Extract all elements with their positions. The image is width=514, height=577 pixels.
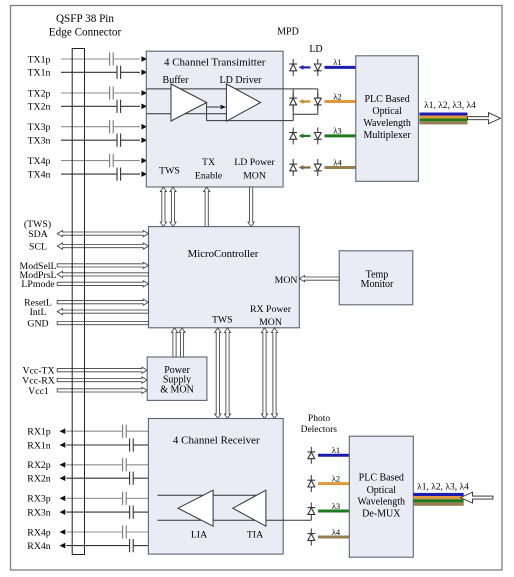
capacitor TX4n: [116, 168, 118, 181]
arrow LD3 to MPD3: [303, 135, 311, 137]
svg-text:Vcc1: Vcc1: [28, 386, 49, 397]
laser diode LD4: [317, 159, 319, 176]
arrow into transmitter TX1p: [141, 56, 147, 62]
wire RX1p: [66, 430, 122, 432]
capacitor TX4p: [109, 154, 111, 167]
svg-text:QSFP 38 Pin: QSFP 38 Pin: [56, 13, 114, 25]
svg-text:LD: LD: [309, 44, 322, 55]
laser diode LD2: [317, 93, 319, 110]
laser diode LD1: [317, 59, 319, 76]
svg-text:Wavelength: Wavelength: [358, 497, 406, 508]
arrow RX optical input: [461, 492, 493, 503]
wire TX1n: [61, 71, 117, 73]
wire lambda2 TX: [325, 100, 356, 103]
svg-text:MON: MON: [275, 275, 298, 286]
capacitor TX2n: [116, 100, 118, 113]
svg-text:RX1p: RX1p: [27, 427, 51, 438]
signal SCL: [57, 243, 148, 249]
svg-text:TIA: TIA: [247, 529, 263, 540]
capacitor TX2p: [109, 86, 111, 99]
capacitor RX2n: [129, 472, 131, 485]
svg-text:RX Power: RX Power: [250, 304, 292, 315]
svg-text:TX1p: TX1p: [28, 54, 51, 65]
svg-text:Optical: Optical: [367, 485, 397, 496]
wire lambda1 TX: [325, 66, 356, 69]
svg-text:Buffer: Buffer: [163, 75, 190, 86]
wire RX top differential: [158, 494, 266, 496]
svg-text:RX2p: RX2p: [27, 460, 51, 471]
arrow out RX1p: [60, 428, 66, 434]
bus TWS MCU-receiver 2: [224, 328, 230, 419]
arrow LD4 to MPD4: [303, 166, 311, 168]
bus RX Power MON 1: [261, 328, 267, 419]
wire RX4p: [66, 531, 122, 533]
svg-text:MON: MON: [259, 317, 282, 328]
signal Vcc1: [57, 387, 147, 393]
arrow out RX4n: [60, 543, 66, 549]
arrow into transmitter TX3n: [141, 137, 147, 143]
wire lambda3 RX: [318, 510, 349, 513]
svg-text:MPD: MPD: [277, 26, 299, 37]
wire TX top differential: [146, 88, 317, 90]
svg-text:TX4p: TX4p: [28, 156, 51, 167]
svg-text:λ1, λ2, λ3, λ4: λ1, λ2, λ3, λ4: [424, 101, 476, 111]
svg-text:λ1: λ1: [332, 445, 340, 455]
arrow out RX4p: [60, 529, 66, 535]
wire TX3n: [61, 139, 117, 141]
wire RX3p: [66, 497, 122, 499]
signal ModPrsL: [57, 271, 148, 277]
wire lambda4 RX: [318, 536, 349, 539]
capacitor RX3n: [129, 506, 131, 519]
wire LD return: [293, 113, 318, 115]
svg-text:Wavelength: Wavelength: [363, 118, 411, 129]
signal GND: [57, 322, 148, 325]
svg-text:RX1n: RX1n: [27, 440, 51, 451]
monitor photodiode MPD3: [292, 127, 294, 144]
svg-text:λ3: λ3: [333, 126, 341, 136]
arrow into transmitter TX3p: [141, 124, 147, 130]
wire lambda2 RX: [318, 482, 349, 485]
svg-text:Delectors: Delectors: [301, 425, 338, 435]
block Power Supply and MON: [147, 357, 207, 400]
arrow out RX3n: [60, 509, 66, 515]
capacitor TX1p: [109, 52, 111, 65]
wire RX3n: [66, 511, 129, 513]
monitor photodiode MPD1: [292, 59, 294, 76]
svg-text:TWS: TWS: [212, 314, 233, 325]
block PLC Based Optical Wavelength De-MUX: [349, 436, 413, 557]
svg-text:RX4p: RX4p: [27, 527, 51, 538]
svg-text:LIA: LIA: [191, 529, 207, 540]
svg-text:PLC Based: PLC Based: [364, 94, 409, 105]
amplifier TIA: [233, 490, 266, 526]
arrow into transmitter TX4p: [141, 158, 147, 164]
svg-text:RX2n: RX2n: [27, 474, 51, 485]
svg-text:PLC Based: PLC Based: [359, 473, 404, 484]
wire TX1p: [61, 58, 110, 60]
svg-text:MON: MON: [243, 170, 266, 181]
svg-text:Photo: Photo: [308, 414, 330, 424]
arrow out RX2n: [60, 475, 66, 481]
laser diode LD3: [317, 127, 319, 144]
svg-text:4 Channel Receiver: 4 Channel Receiver: [173, 435, 260, 447]
svg-text:& MON: & MON: [160, 385, 194, 396]
svg-text:TX4n: TX4n: [28, 170, 51, 181]
wire TX2n: [61, 105, 117, 107]
bus TWS transmitter-microcontroller 2: [170, 187, 176, 227]
arrow TX Enable: [204, 187, 210, 227]
bus TWS transmitter-microcontroller 1: [160, 187, 166, 227]
wire MPD branch: [292, 89, 294, 121]
capacitor RX4n: [129, 539, 131, 552]
svg-text:λ4: λ4: [333, 157, 342, 167]
signal ModSelL: [57, 262, 148, 268]
signal IntL: [57, 309, 148, 315]
arrow out RX1n: [60, 442, 66, 448]
wire RX2n: [66, 477, 129, 479]
arrow out RX2p: [60, 462, 66, 468]
signal LPmode: [57, 281, 148, 287]
block 4 Channel Receiver: [148, 419, 283, 555]
arrow into transmitter TX2n: [141, 104, 147, 110]
photodiode PD2: [310, 475, 312, 492]
monitor photodiode MPD4: [292, 159, 294, 176]
svg-text:SDA: SDA: [28, 229, 48, 240]
wire TX4n: [61, 173, 117, 175]
wire LD branch: [317, 89, 319, 114]
svg-text:λ1, λ2, λ3, λ4: λ1, λ2, λ3, λ4: [417, 483, 469, 493]
svg-text:Edge Connector: Edge Connector: [49, 26, 122, 38]
svg-text:TX3n: TX3n: [28, 136, 51, 147]
fiber band RX input: [413, 493, 463, 496]
svg-text:TWS: TWS: [159, 165, 180, 176]
svg-text:GND: GND: [27, 319, 48, 330]
wire buffer to driver with arrow: [207, 106, 220, 108]
capacitor RX1p: [122, 425, 124, 438]
svg-text:TX: TX: [202, 157, 215, 168]
wire buffer output lower: [206, 103, 208, 121]
amplifier LD Driver: [226, 84, 260, 121]
capacitor RX4p: [122, 525, 124, 538]
bus RX Power MON 2: [271, 328, 277, 419]
bus power supply to MCU 1: [171, 328, 177, 357]
svg-text:IntL: IntL: [30, 307, 47, 318]
svg-text:λ3: λ3: [332, 501, 340, 511]
capacitor TX1n: [116, 66, 118, 79]
arrow temp monitor to MCU: [299, 276, 339, 282]
svg-text:RX3p: RX3p: [27, 494, 51, 505]
signal SDA: [57, 231, 148, 237]
svg-text:λ2: λ2: [332, 473, 340, 483]
wire TX3p: [61, 126, 110, 128]
svg-text:MicroController: MicroController: [188, 248, 259, 260]
arrow LD Power MON to MCU: [248, 187, 254, 227]
svg-text:LD Power: LD Power: [234, 157, 275, 168]
wire lambda3 TX: [325, 134, 356, 137]
arrow into transmitter TX2p: [141, 90, 147, 96]
block 4 Channel Transimitter: [146, 51, 283, 187]
arrow TX optical output: [468, 113, 501, 124]
monitor photodiode MPD2: [292, 93, 294, 110]
svg-text:4 Channel Transimitter: 4 Channel Transimitter: [164, 57, 266, 69]
amplifier buffer: [171, 84, 207, 121]
capacitor RX2p: [122, 458, 124, 471]
block PLC Based Optical Wavelength Multiplexer: [356, 56, 419, 182]
wire RX2p: [66, 464, 122, 466]
wire lambda4 TX: [325, 166, 356, 169]
svg-text:Monitor: Monitor: [361, 279, 394, 290]
svg-text:Optical: Optical: [372, 106, 402, 117]
svg-text:Enable: Enable: [195, 170, 223, 181]
bus power supply to MCU 2: [179, 328, 185, 357]
arrow out RX3p: [60, 496, 66, 502]
svg-text:SCL: SCL: [29, 242, 47, 253]
block MicroController: [149, 227, 300, 328]
svg-text:TX2n: TX2n: [28, 102, 51, 113]
photodiode PD3: [310, 503, 312, 520]
fiber band TX output: [419, 113, 467, 116]
QSFP edge connector: [72, 49, 84, 555]
svg-text:TX2p: TX2p: [28, 88, 51, 99]
photodiode PD1: [310, 447, 312, 464]
svg-text:Multiplexer: Multiplexer: [363, 130, 411, 141]
svg-text:LPmode: LPmode: [21, 279, 55, 290]
amplifier LIA: [178, 490, 213, 526]
wire TX2p: [61, 92, 110, 94]
wire TX4p: [61, 160, 110, 162]
svg-text:De-MUX: De-MUX: [362, 508, 401, 519]
wire TX bottom differential: [146, 113, 226, 115]
capacitor TX3n: [116, 134, 118, 147]
wire lambda1 RX: [318, 454, 349, 457]
wire RX bottom differential: [158, 519, 312, 521]
block Temp Monitor: [339, 251, 413, 305]
arrow into transmitter TX4n: [141, 171, 147, 177]
svg-text:λ2: λ2: [333, 91, 341, 101]
bus TWS MCU-receiver 1: [215, 328, 221, 419]
svg-text:TX3p: TX3p: [28, 122, 51, 133]
arrow LD1 to MPD1: [303, 66, 311, 68]
signal ResetL: [57, 299, 148, 305]
capacitor RX3p: [122, 492, 124, 505]
svg-text:RX3n: RX3n: [27, 508, 51, 519]
signal Vcc-RX: [57, 377, 147, 383]
wire RX4n: [66, 545, 129, 547]
svg-text:λ1: λ1: [333, 57, 341, 67]
wire RX1n: [66, 444, 129, 446]
capacitor RX1n: [129, 438, 131, 451]
arrow into transmitter TX1n: [141, 70, 147, 76]
capacitor TX3p: [109, 120, 111, 133]
svg-text:RX4n: RX4n: [27, 541, 51, 552]
photodiode PD4: [310, 529, 312, 546]
signal Vcc-TX: [57, 367, 147, 373]
svg-text:TX1n: TX1n: [28, 68, 51, 79]
arrow LD2 to MPD2: [303, 100, 311, 102]
svg-text:λ4: λ4: [332, 527, 341, 537]
